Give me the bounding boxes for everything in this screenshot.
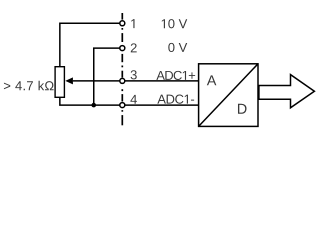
- terminal 4: [120, 103, 125, 108]
- label A: [207, 75, 217, 85]
- terminal 3: [120, 78, 125, 83]
- pin label 4: [130, 95, 137, 104]
- potentiometer wiper arrow: [65, 77, 73, 84]
- A/D converter U1 box: [199, 64, 258, 127]
- pin label 2: [131, 43, 137, 52]
- label D: [238, 104, 247, 114]
- label 10 V: [162, 19, 187, 28]
- label 0 V: [168, 43, 187, 52]
- net label ADC1-: [157, 95, 194, 104]
- pin label 3: [131, 70, 137, 79]
- terminal 1: [120, 21, 125, 26]
- wire pin2 down to node: [94, 48, 123, 105]
- node junction dot: [91, 103, 96, 108]
- potentiometer R1 body: [55, 67, 64, 98]
- output bus arrow: [259, 75, 315, 108]
- label > 4.7 kOhm: [4, 81, 54, 90]
- terminal 2: [120, 46, 125, 51]
- dash-dot boundary line: [121, 13, 123, 125]
- wire pin1 to potentiometer top: [60, 23, 122, 66]
- wire wiper to ADC1+ input: [73, 80, 199, 82]
- A/D converter diagonal: [199, 64, 258, 127]
- net label ADC1+: [156, 71, 195, 80]
- wire potentiometer bottom to ADC1- input: [60, 97, 199, 106]
- pin label 1: [131, 19, 134, 28]
